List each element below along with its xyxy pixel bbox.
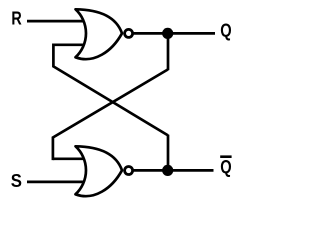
wire S input to U2 lower input xyxy=(27,181,86,184)
wire bottom gate output to QB xyxy=(134,169,214,172)
svg-text:Q: Q xyxy=(220,157,231,177)
wire U1 lower input horizontal segment xyxy=(53,43,86,46)
wire top gate output to Q xyxy=(134,32,216,35)
wire left lower vertical and diagonal to node Q xyxy=(53,69,168,160)
label Q-bar xyxy=(220,155,232,177)
svg-text:R: R xyxy=(11,9,21,29)
wire U2 upper input horizontal segment xyxy=(53,157,86,160)
wire right lower vertical segment to node QB xyxy=(167,135,170,171)
junction node QB xyxy=(162,165,173,176)
NOR gate U2 (bottom) xyxy=(76,146,133,196)
NOR gate U1 (top) xyxy=(76,9,133,59)
wire left upper vertical segment xyxy=(53,44,168,136)
svg-text:S: S xyxy=(11,171,22,191)
junction node Q xyxy=(162,28,173,39)
svg-text:Q: Q xyxy=(220,21,231,41)
wire R input to U1 upper input xyxy=(27,20,86,23)
wire right upper vertical segment to node Q xyxy=(167,33,170,70)
